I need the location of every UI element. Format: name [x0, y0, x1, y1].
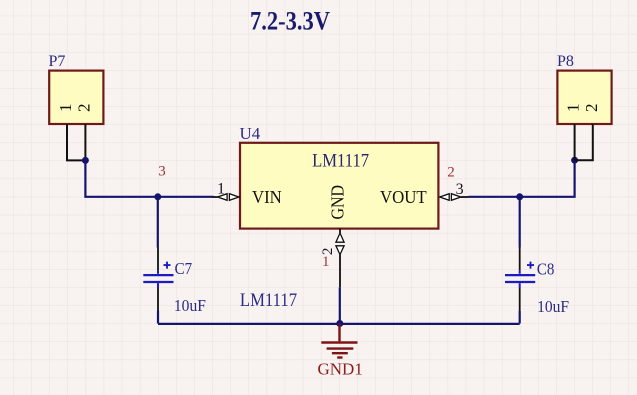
- svg-text:2: 2: [582, 104, 601, 113]
- svg-text:C8: C8: [537, 259, 555, 278]
- svg-text:2: 2: [447, 164, 455, 180]
- title text 7.2-3.3V: [250, 7, 330, 36]
- svg-text:1: 1: [56, 104, 75, 113]
- P7 pin name 1: [56, 104, 75, 113]
- wire VOUT to P8: [469, 160, 575, 197]
- U4 pin number 2 (rotated): [320, 248, 336, 256]
- U4 pin 1 (VIN) line: [213, 196, 241, 198]
- svg-text:VIN: VIN: [252, 187, 282, 207]
- U4 pin 1 IO arrow symbol: [218, 194, 239, 201]
- svg-text:P8: P8: [557, 53, 574, 70]
- net label 2: [447, 164, 455, 180]
- svg-text:GND: GND: [328, 185, 348, 220]
- junction at C8 branch: [516, 193, 523, 200]
- connector P7: [49, 53, 104, 124]
- P7 pin 1 wire: [67, 124, 85, 160]
- net label 1: [322, 254, 330, 270]
- ground net label GND1: [318, 360, 363, 379]
- U4 comment LM1117: [312, 151, 369, 172]
- svg-text:1: 1: [564, 104, 583, 113]
- U4 pin 2 (GND) line: [339, 229, 341, 288]
- P7 pin name 2: [74, 104, 93, 113]
- P8 pin 2 wire: [575, 124, 593, 160]
- capacitor C8: [505, 197, 535, 324]
- C7 value 10uF: [174, 296, 206, 315]
- svg-text:10uF: 10uF: [174, 296, 206, 315]
- junction at P8 pins: [571, 157, 578, 164]
- U4 value label LM1117: [240, 290, 297, 311]
- svg-text:P7: P7: [49, 53, 66, 70]
- P8 pin 1 wire: [574, 124, 576, 160]
- C8 value 10uF: [537, 297, 569, 316]
- wire from P7 junction to VIN: [85, 160, 213, 196]
- wire GND pin to bottom rail: [339, 287, 341, 323]
- bottom wire rail: [158, 323, 520, 325]
- U4 pin name VOUT: [380, 187, 427, 207]
- connector P8: [557, 53, 612, 124]
- U4 pin name VIN: [252, 187, 282, 207]
- P7 pin 2 wire: [84, 124, 86, 160]
- svg-text:3: 3: [158, 163, 166, 179]
- P8 pin name 1: [564, 104, 583, 113]
- svg-text:3: 3: [456, 181, 464, 198]
- svg-text:LM1117: LM1117: [312, 151, 369, 172]
- P8 pin name 2: [582, 104, 601, 113]
- svg-text:1: 1: [217, 180, 225, 197]
- C8 designator: [537, 259, 555, 278]
- U4 pin number 1: [217, 180, 225, 197]
- U4 pin 2 IO arrow symbol: [336, 233, 344, 255]
- svg-text:C7: C7: [175, 259, 193, 278]
- regulator U4 designator: [240, 124, 261, 143]
- capacitor C7: [143, 197, 173, 324]
- svg-text:U4: U4: [240, 124, 261, 143]
- junction at ground: [336, 320, 343, 327]
- net label 3: [158, 163, 166, 179]
- junction at P7 pins: [82, 157, 89, 164]
- junction at C7 branch: [154, 193, 161, 200]
- ground symbol GND1: [321, 324, 357, 358]
- svg-text:LM1117: LM1117: [240, 290, 297, 311]
- svg-text:1: 1: [322, 254, 330, 270]
- svg-text:GND1: GND1: [318, 360, 363, 379]
- svg-text:VOUT: VOUT: [380, 187, 427, 207]
- svg-text:2: 2: [74, 104, 93, 113]
- U4 pin 3 IO arrow symbol: [440, 194, 461, 201]
- svg-text:7.2-3.3V: 7.2-3.3V: [250, 7, 330, 36]
- regulator U4 body: [240, 143, 438, 229]
- U4 pin name GND (rotated): [328, 185, 348, 220]
- C7 designator: [175, 259, 193, 278]
- U4 pin 3 (VOUT) line: [461, 196, 469, 198]
- svg-text:10uF: 10uF: [537, 297, 569, 316]
- U4 pin number 3: [456, 181, 464, 198]
